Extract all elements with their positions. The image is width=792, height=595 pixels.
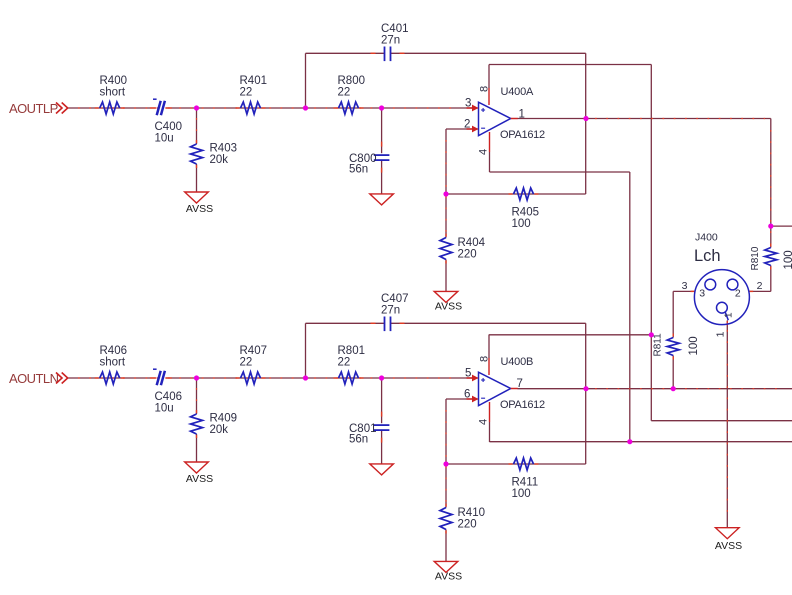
- svg-text:4: 4: [478, 149, 490, 155]
- svg-text:R404: R404: [458, 237, 486, 249]
- svg-text:AVSS: AVSS: [186, 203, 213, 215]
- svg-text:R811: R811: [653, 333, 664, 357]
- svg-text:3: 3: [699, 288, 705, 300]
- svg-text:10u: 10u: [155, 403, 174, 415]
- svg-text:Lch: Lch: [694, 247, 721, 265]
- svg-text:AVSS: AVSS: [186, 473, 213, 485]
- svg-text:R411: R411: [512, 477, 539, 489]
- svg-text:22: 22: [240, 357, 253, 369]
- svg-text:4: 4: [478, 419, 490, 425]
- svg-text:C401: C401: [381, 23, 409, 35]
- svg-text:6: 6: [464, 389, 470, 401]
- svg-text:5: 5: [465, 368, 471, 380]
- svg-text:7: 7: [517, 378, 523, 390]
- svg-text:56n: 56n: [349, 434, 368, 446]
- svg-text:R410: R410: [458, 507, 486, 519]
- svg-text:R405: R405: [512, 207, 540, 219]
- svg-text:AOUTLN: AOUTLN: [9, 371, 59, 386]
- svg-text:AVSS: AVSS: [435, 571, 462, 583]
- svg-text:R406: R406: [100, 345, 128, 357]
- svg-text:27n: 27n: [381, 305, 400, 317]
- svg-text:C400: C400: [155, 121, 183, 133]
- svg-text:8: 8: [479, 356, 491, 362]
- svg-text:20k: 20k: [210, 424, 229, 436]
- svg-text:1: 1: [723, 312, 734, 318]
- svg-text:C407: C407: [381, 293, 409, 305]
- svg-text:R801: R801: [338, 345, 366, 357]
- svg-text:22: 22: [240, 87, 253, 99]
- svg-text:220: 220: [458, 519, 477, 531]
- svg-text:22: 22: [338, 87, 351, 99]
- svg-text:AVSS: AVSS: [715, 540, 742, 552]
- svg-text:22: 22: [338, 357, 351, 369]
- svg-text:27n: 27n: [381, 35, 400, 47]
- svg-text:3: 3: [465, 98, 471, 110]
- svg-text:2: 2: [757, 280, 763, 292]
- svg-text:R400: R400: [100, 75, 128, 87]
- svg-text:AVSS: AVSS: [435, 301, 462, 313]
- svg-text:100: 100: [688, 336, 700, 355]
- svg-text:56n: 56n: [349, 164, 368, 176]
- svg-text:R401: R401: [240, 75, 268, 87]
- svg-text:U400A: U400A: [501, 86, 534, 98]
- svg-text:1: 1: [519, 109, 525, 121]
- svg-text:R403: R403: [210, 143, 238, 155]
- svg-text:2: 2: [735, 288, 741, 300]
- svg-text:R407: R407: [240, 345, 268, 357]
- svg-text:J400: J400: [695, 232, 718, 244]
- svg-text:1: 1: [714, 331, 726, 337]
- svg-text:short: short: [100, 357, 126, 369]
- svg-text:U400B: U400B: [501, 356, 534, 368]
- svg-text:100: 100: [512, 488, 531, 500]
- svg-text:R800: R800: [338, 75, 366, 87]
- svg-text:20k: 20k: [210, 154, 229, 166]
- svg-text:100: 100: [512, 218, 531, 230]
- svg-text:R409: R409: [210, 413, 238, 425]
- svg-text:R810: R810: [750, 246, 761, 270]
- svg-text:short: short: [100, 87, 126, 99]
- svg-text:3: 3: [682, 280, 688, 292]
- svg-text:OPA1612: OPA1612: [500, 399, 545, 411]
- svg-text:10u: 10u: [155, 133, 174, 145]
- svg-text:220: 220: [458, 249, 477, 261]
- svg-text:100: 100: [783, 250, 792, 269]
- svg-text:OPA1612: OPA1612: [500, 129, 545, 141]
- svg-text:AOUTLP: AOUTLP: [9, 101, 58, 116]
- svg-text:8: 8: [479, 86, 491, 92]
- svg-text:2: 2: [464, 119, 470, 131]
- svg-text:C406: C406: [155, 391, 183, 403]
